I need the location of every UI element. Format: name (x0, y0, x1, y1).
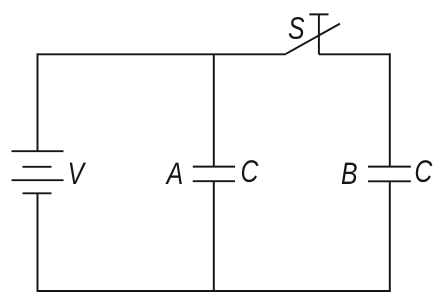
label B (342, 163, 357, 184)
capacitor B top plate (368, 166, 411, 168)
switch S post (318, 14, 320, 54)
wire left upper (37, 53, 39, 151)
wire bottom (37, 290, 391, 292)
label C of capacitor B (416, 160, 433, 182)
label V (70, 163, 86, 184)
switch S terminal bar (309, 13, 328, 15)
battery V plate short lower (23, 192, 52, 194)
wire middle lower (213, 181, 215, 291)
battery V plate long top (12, 150, 64, 152)
wire top-right segment (319, 53, 391, 55)
label S (289, 17, 305, 39)
wire left lower (37, 193, 39, 292)
label A (165, 163, 181, 184)
capacitor A bottom plate (193, 180, 235, 182)
wire right lower (389, 181, 391, 292)
wire top-left segment (37, 53, 286, 55)
capacitor B bottom plate (368, 180, 411, 182)
wire middle upper (213, 54, 215, 166)
wire right upper (389, 53, 391, 166)
battery V plate short upper (23, 166, 52, 168)
switch S blade (286, 24, 340, 54)
battery V plate long bottom (12, 179, 64, 181)
capacitor A top plate (193, 166, 235, 168)
label C of capacitor A (242, 160, 259, 182)
